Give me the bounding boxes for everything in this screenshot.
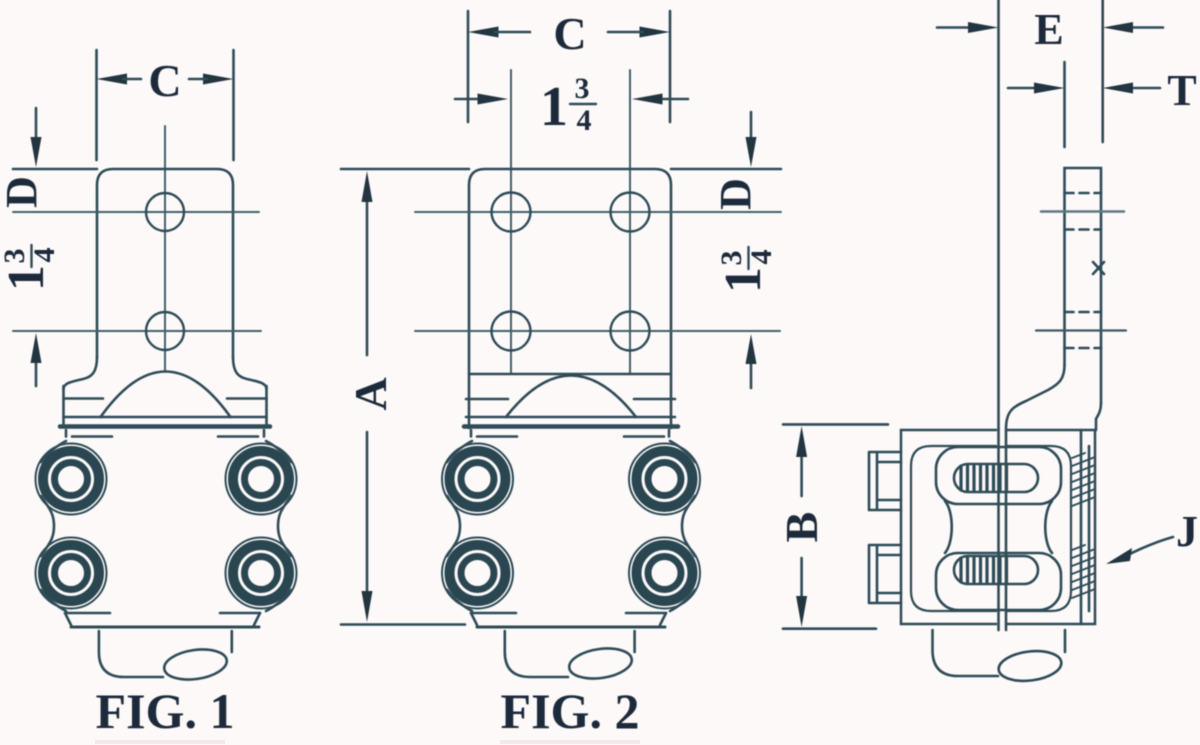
fig1 bolt bottom-left (36, 538, 107, 609)
side stud slot 1 (954, 464, 1038, 492)
fig1 body side left upper (62, 386, 65, 424)
fig2 pad outline (469, 169, 671, 428)
side stud threads 1 (961, 466, 1007, 490)
svg-text:1: 1 (0, 265, 55, 291)
side pad hole 2 centerline (1036, 329, 1126, 331)
fig2 shoulder line right (634, 398, 675, 401)
dimension E right arrow (1130, 26, 1163, 29)
fig1 hole upper (146, 193, 184, 231)
dimension T right arrow (1130, 87, 1160, 90)
fig1 hole lower (146, 312, 184, 350)
bottom edge smudge under FIG.1 (95, 740, 225, 744)
fig1 bottom lip sides (65, 613, 260, 625)
side pad hole 2 dashed lines (1065, 311, 1102, 314)
side stud slot 2 (954, 556, 1038, 584)
fig2 side wave right (670, 441, 695, 611)
side hex bolt head 2 (869, 545, 901, 603)
fig1 pad outline (97, 169, 233, 357)
fig2 D extension line right (671, 168, 781, 171)
fig1 body line above joint (64, 416, 267, 419)
fig1 hole row line lower (13, 330, 261, 332)
side pad strip right S-bend (1096, 403, 1101, 430)
fig2 1-3/4 dim label (540, 72, 592, 138)
fig1 body side right upper (265, 386, 268, 424)
fig1 D extension line at pad top left (13, 168, 97, 171)
dimension C fig1 left arrow (97, 74, 128, 85)
fig2 bolt top-right (629, 444, 700, 515)
side clamp slot line right (1005, 430, 1008, 630)
fig2 hole row line lower (415, 330, 780, 332)
svg-text:4: 4 (577, 104, 592, 137)
fig1 body shoulder line right (227, 397, 267, 400)
fig2 hole bottom-right (611, 312, 650, 351)
side clamp inner box (911, 446, 1071, 611)
dimension A line (366, 196, 369, 600)
bottom edge smudge under FIG.2 (500, 740, 640, 744)
side right strip lines (1081, 430, 1089, 624)
dimension B line (800, 450, 803, 605)
side pad strip outline (1065, 168, 1102, 403)
fig2 hole row line upper (415, 211, 781, 213)
fig2 body line above joint (466, 416, 675, 419)
fig1 lip right (218, 430, 264, 437)
svg-text:E: E (1034, 5, 1063, 54)
fig1 lip left (66, 430, 112, 437)
side jaw waist right (1045, 501, 1052, 553)
svg-text:D: D (0, 176, 46, 208)
fig1 bolt top-left (36, 444, 107, 515)
fig2 lip left (471, 430, 517, 437)
fig2 bottom lip sides (471, 613, 666, 625)
fig2 bottom lip left (471, 612, 516, 615)
fig2 bolt bottom-left (442, 538, 513, 609)
side hex bolt head 1 (869, 452, 901, 510)
fig2 bottom joint line (477, 626, 665, 629)
fig1 bolt top-right (226, 444, 297, 515)
svg-text:3: 3 (575, 72, 590, 105)
dimension A extension bottom (341, 623, 465, 626)
svg-text:D: D (711, 178, 760, 210)
side pad face line (997, 0, 1000, 429)
dimension A extension top (341, 168, 469, 171)
side clamp outer box (901, 430, 1095, 624)
side clamp slot line left (997, 429, 1000, 630)
side right strip hatch 1 (1072, 453, 1095, 506)
dimension C fig2 extension line left (467, 11, 470, 122)
fig1 cable ellipse (162, 646, 228, 683)
fig1 joint line thick (60, 424, 270, 429)
side right strip hatch 2 (1072, 545, 1095, 598)
dimension B extension bottom (783, 627, 876, 630)
side pad hole 1 dashed lines (1065, 192, 1102, 195)
dimension T extension line (1063, 62, 1066, 147)
svg-text:FIG. 2: FIG. 2 (501, 683, 640, 739)
svg-text:3: 3 (715, 251, 748, 266)
fig2 hole top-right (611, 193, 650, 232)
svg-text:4: 4 (745, 250, 778, 265)
fig2 side wave left (447, 441, 472, 611)
fig1 pad flare left (64, 357, 98, 389)
svg-text:4: 4 (28, 248, 61, 263)
side cable ellipse (997, 648, 1063, 684)
side bottom cap (933, 630, 999, 676)
fig2 cable ellipse (567, 645, 633, 682)
dimension E extension line (1101, 0, 1104, 142)
svg-text:1: 1 (540, 76, 568, 138)
fig1 bottom lip left (65, 612, 110, 615)
fig2 1-3/4 dim left arrow (455, 98, 481, 101)
side pad strip left S-bend (1006, 365, 1065, 429)
fig1 1-3/4 label (rotated) (0, 245, 61, 291)
dimension C fig2 left arrow (468, 27, 499, 38)
fig2 hole column line right (629, 70, 631, 374)
svg-text:B: B (776, 512, 827, 543)
fig2 hole bottom-left (492, 312, 531, 351)
fig1 side wave left (41, 441, 66, 611)
fig1 bottom joint line (71, 626, 259, 629)
dimension B extension top (783, 423, 888, 426)
fig2 hole column line left (510, 70, 512, 374)
fig1 bolt bottom-right (226, 538, 297, 609)
side jaw lobe lower (936, 553, 1061, 610)
side pad hole 1 centerline (1041, 210, 1124, 213)
fig2 1-3/4 up arrow right (750, 360, 753, 388)
fig2 hole top-left (492, 193, 531, 232)
svg-text:T: T (1167, 66, 1196, 115)
svg-text:C: C (553, 8, 586, 59)
fig1 body shoulder line left (64, 397, 104, 400)
side jaw lobe upper (936, 447, 1061, 504)
fig1 hole row line upper (13, 211, 259, 213)
fig2 joint line thick (464, 424, 678, 429)
dimension T left arrow (1008, 87, 1040, 90)
svg-text:C: C (148, 55, 181, 106)
fig2 1-3/4 dim right arrow (658, 98, 688, 101)
side jaw waist left (945, 501, 952, 553)
svg-text:1: 1 (715, 267, 772, 293)
fig2 lip right (624, 430, 669, 437)
svg-text:3: 3 (0, 249, 31, 264)
dimension C fig2 right arrow (640, 27, 671, 38)
dimension E left arrow (937, 26, 972, 29)
svg-text:J: J (1176, 507, 1198, 556)
svg-text:A: A (345, 377, 396, 410)
svg-text:FIG. 1: FIG. 1 (96, 683, 235, 739)
fig2 bottom cap (505, 631, 568, 677)
fig1 dome arc (101, 372, 231, 418)
fig2 pad bottom line (469, 373, 671, 376)
fig2 1-3/4 label right (rotated) (715, 247, 778, 293)
fig1 pad flare right (233, 357, 267, 389)
fig1 bottom cap (99, 631, 163, 677)
dimension C fig2 extension line right (669, 11, 672, 122)
side stud threads 2 (961, 558, 1007, 582)
fig2 bolt top-left (442, 444, 513, 515)
dimension C fig1 extension line left (95, 50, 98, 160)
side pad small x mark (1093, 262, 1104, 274)
fig2 D down arrow (750, 112, 753, 145)
dimension C fig1 right arrow (203, 74, 234, 85)
fig1 pad centerline (164, 126, 166, 370)
J leader line (1118, 537, 1173, 560)
dimension C fig1 extension line right (232, 50, 235, 160)
fig1 1-3/4 up arrow (35, 358, 38, 386)
fig2 dome arc (506, 376, 636, 418)
fig1 D down arrow (35, 108, 38, 145)
fig2 bolt bottom-right (629, 538, 700, 609)
fig2 bottom lip right (626, 612, 666, 615)
fig1 bottom lip right (220, 612, 260, 615)
fig2 shoulder line left (466, 398, 508, 401)
fig1 side wave right (266, 441, 291, 611)
